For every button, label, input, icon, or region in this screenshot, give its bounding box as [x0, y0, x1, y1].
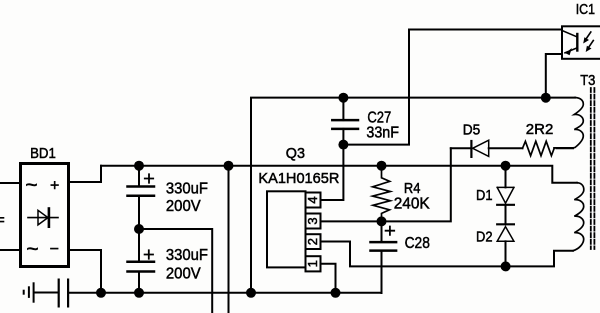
svg-text:330uF: 330uF	[166, 247, 208, 264]
Y-capacitor	[59, 280, 68, 307]
svg-text:3: 3	[305, 217, 320, 224]
svg-text:D5: D5	[463, 122, 481, 139]
svg-text:240K: 240K	[394, 196, 430, 213]
capacitor C28	[371, 221, 397, 293]
transformer T3 upper winding	[573, 98, 583, 148]
svg-text:BD1: BD1	[30, 145, 56, 162]
wire mains top input	[0, 182, 20, 184]
wire pin2 to D2 bottom node	[321, 242, 506, 267]
svg-text:4: 4	[305, 196, 320, 203]
mains cut marks	[0, 218, 4, 222]
wire upper winding bottom to 2R2	[554, 147, 573, 149]
transformer T3 core	[591, 88, 595, 249]
wire pin1 to bottom rail	[321, 264, 336, 293]
wire main rail drop at x228	[228, 166, 230, 313]
wire middle cap node down	[139, 229, 212, 313]
wire pin4 to C27 bottom node	[321, 129, 344, 200]
wire D2 bottom node to lower winding	[506, 251, 573, 267]
svg-text:200V: 200V	[166, 198, 201, 215]
wire ground to Y-capacitor	[35, 292, 58, 294]
svg-text:33nF: 33nF	[366, 125, 399, 142]
wire 2R2 to upper winding	[557, 147, 574, 149]
optocoupler IC1	[562, 26, 600, 59]
svg-text:C28: C28	[405, 235, 430, 252]
wire pin3 to R4 bottom and up to D5	[321, 148, 451, 221]
diode D1	[497, 166, 514, 225]
BD1 tilde plus minus	[25, 174, 59, 261]
svg-text:T3: T3	[580, 72, 595, 89]
svg-text:200V: 200V	[166, 265, 201, 282]
svg-text:−: −	[50, 241, 59, 258]
svg-text:+: +	[50, 177, 59, 194]
wire IC1 emitter drop	[546, 54, 562, 98]
BD1 internal diode	[28, 217, 58, 219]
wire BD1 minus output down to bottom rail	[69, 250, 101, 293]
svg-text:D1: D1	[476, 187, 493, 204]
wire mains bottom input	[0, 249, 20, 251]
resistor 2R2	[523, 141, 555, 155]
wire BD1 plus output to main rail	[69, 166, 101, 182]
svg-text:Q3: Q3	[286, 145, 305, 162]
capacitor 330uF top	[128, 166, 155, 229]
wire primary ground: C27 top node	[251, 98, 575, 293]
svg-text:2R2: 2R2	[526, 121, 554, 138]
pin 2	[306, 234, 321, 249]
svg-text:D2: D2	[476, 229, 493, 246]
bridge rectifier BD1	[21, 164, 69, 267]
svg-text:~: ~	[25, 174, 37, 197]
diode D2	[497, 224, 514, 266]
svg-text:2: 2	[305, 238, 320, 245]
svg-text:~: ~	[26, 238, 38, 261]
ground	[24, 283, 34, 301]
capacitor 330uF bottom	[128, 229, 155, 293]
svg-text:KA1H0165R: KA1H0165R	[258, 170, 339, 187]
transformer T3 lower winding	[573, 183, 584, 251]
pin numbers	[305, 196, 320, 267]
resistor R4	[373, 166, 391, 222]
pin 1	[306, 256, 321, 271]
pin 4	[306, 193, 321, 208]
svg-text:330uF: 330uF	[166, 181, 208, 198]
svg-text:1: 1	[305, 260, 320, 267]
diode D5	[451, 140, 523, 157]
main positive rail	[101, 166, 577, 183]
capacitor C27	[332, 98, 358, 129]
pin 3	[306, 214, 321, 229]
bottom rail	[68, 292, 381, 294]
svg-text:R4: R4	[404, 180, 421, 197]
IC Q3 KA1H0165R	[267, 191, 321, 271]
wire IC1 top: optocoupler collector run	[343, 30, 562, 145]
svg-text:IC1: IC1	[576, 1, 595, 18]
